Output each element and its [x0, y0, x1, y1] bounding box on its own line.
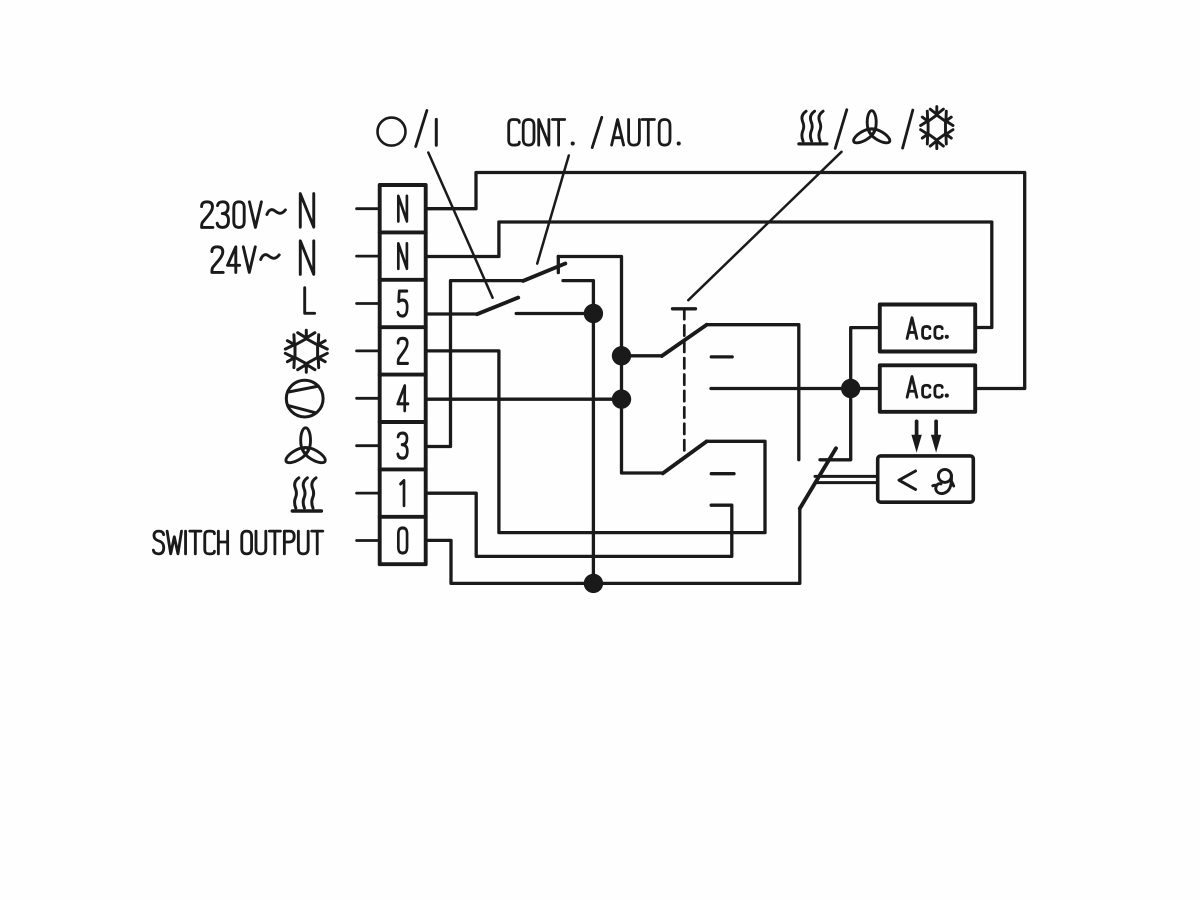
- wire terminal 5 to O/I switch: [426, 312, 477, 315]
- terminal left stub wires: [357, 209, 380, 541]
- wire O/I switch to node A: [516, 312, 593, 315]
- label SWITCH OUTPUT (terminal 0): [153, 531, 322, 554]
- label CONT. / AUTO. (continuous-automatic selector): [509, 117, 681, 147]
- switch blade O/I (mains on-off): [477, 298, 518, 315]
- switch blade selector deck1: [662, 325, 707, 356]
- terminal label 3 (row 6): [398, 433, 407, 458]
- switch blade selector deck2: [663, 441, 707, 473]
- icon snowflake (cooling, terminal 2): [285, 330, 327, 372]
- node B junction dot: [612, 346, 631, 365]
- fixed contact tick deck1 middle: [711, 355, 732, 358]
- icon snowflake (mode selector): [921, 107, 953, 149]
- terminal strip outer box: [380, 185, 426, 564]
- wire Acc.1 left side down to thermostat lower contact: [820, 328, 880, 460]
- node C junction dot: [612, 390, 631, 409]
- leader line from mode icons to ganged link: [688, 152, 841, 300]
- terminal label 0 (row 8): [398, 528, 407, 553]
- leader line from O/I to mains switch: [428, 153, 492, 298]
- slash between heat and fan icons: [835, 110, 847, 149]
- terminal label 1 (row 7): [401, 481, 404, 506]
- slash between fan and snowflake icons: [903, 110, 913, 148]
- wire AUTO. contact to selector common rail: [558, 257, 663, 474]
- terminal label N (row 2): [398, 244, 407, 269]
- icon fan propeller (terminal 3): [284, 428, 328, 466]
- icon heating (terminal 1): [292, 478, 321, 511]
- box Acc.2 (accessory relay 230V): [880, 365, 975, 412]
- box thermostat < theta (temperature limit sensor): [878, 456, 974, 502]
- switch blade thermostat: [800, 448, 836, 508]
- terminal label 4 (row 5): [398, 386, 408, 411]
- wire deck1 lower contact to Acc.2 left side: [711, 387, 880, 390]
- ganged link dashed line: [683, 309, 686, 451]
- label 24V~ N (terminal N low-voltage neutral): [212, 241, 314, 275]
- wire node B to selector deck1 blade: [622, 354, 662, 357]
- arrow down left (Acc.2 to thermostat): [911, 421, 921, 452]
- wire terminal 4 to node C: [426, 398, 622, 401]
- wire CONT. contact to node A: [563, 281, 593, 584]
- box Acc.1 (accessory relay 24V): [880, 305, 975, 352]
- terminal label N (row 1): [398, 196, 407, 221]
- node A junction dot: [584, 304, 603, 323]
- node E junction dot: [584, 574, 603, 593]
- node D junction dot: [841, 379, 860, 398]
- wire terminal N(230V) to Acc.2 right side: [426, 173, 1025, 389]
- terminal label 2 (row 4): [398, 338, 407, 363]
- icon fan propeller (mode selector): [852, 111, 892, 146]
- icon heating (mode selector): [799, 111, 827, 144]
- switch blade CONT./AUTO.: [523, 264, 565, 281]
- label 230V~ N (terminal N mains neutral): [202, 194, 314, 228]
- terminal strip cell dividers: [380, 232, 426, 516]
- leader line from CONT./AUTO. to selector switch: [537, 156, 569, 264]
- wire terminal 3 up to CONT./AUTO. switch: [426, 281, 523, 447]
- wire terminal N(24V) to Acc.1 right side: [426, 222, 992, 328]
- icon compressor/pump circle (terminal 4): [286, 380, 323, 417]
- thermostat actuator double link: [815, 476, 878, 482]
- ganged link contact bar: [673, 307, 696, 310]
- terminal label 5 (row 3): [398, 291, 407, 316]
- fixed contact tick CONT./AUTO. upper: [557, 256, 560, 272]
- label L (line terminal): [305, 288, 315, 314]
- label O/I (on-off switch): [378, 110, 437, 146]
- wire terminal 2 to selector deck2 upper contact: [426, 351, 765, 533]
- fixed contact tick deck2 middle: [711, 472, 734, 475]
- arrow down right (Acc.2 to thermostat): [931, 421, 941, 452]
- wire terminal 0 to thermostat switch common: [426, 509, 800, 584]
- wire deck1 cool contact to thermostat upper contact: [707, 325, 799, 460]
- wire terminal 1 to selector deck2 heat contact: [426, 493, 732, 556]
